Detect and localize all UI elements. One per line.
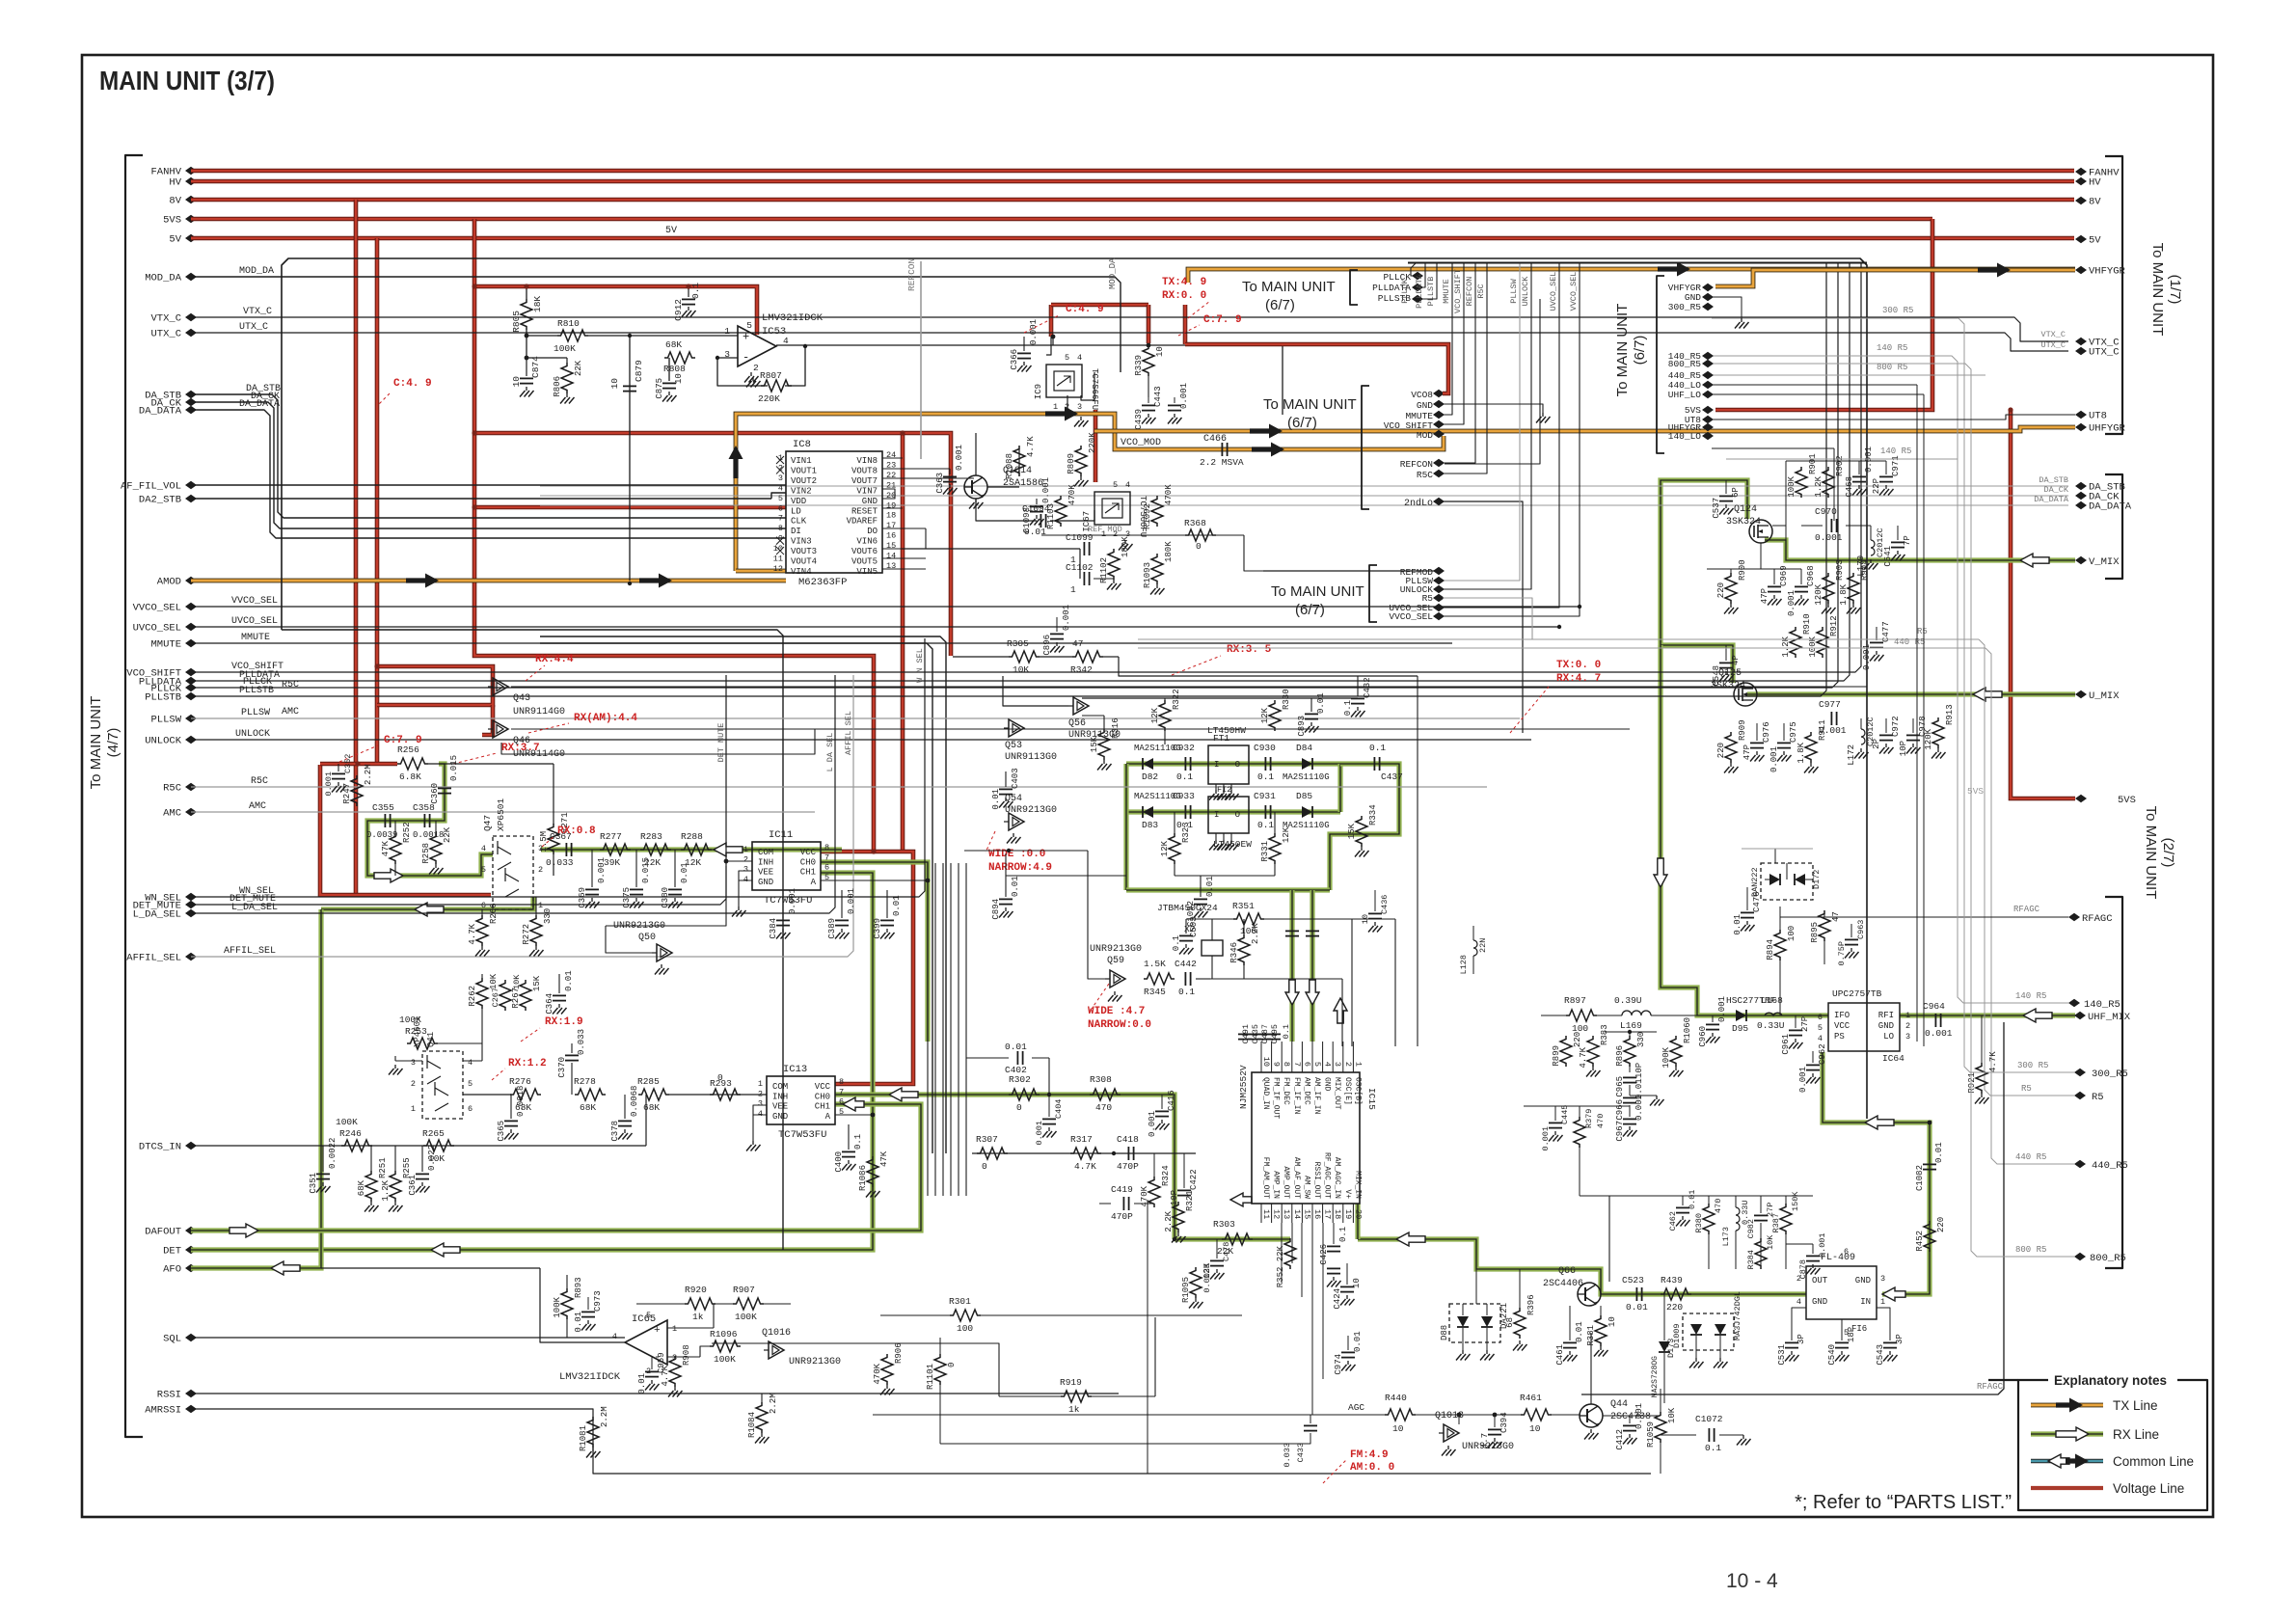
- svg-text:VIN8: VIN8: [856, 456, 878, 466]
- legend Common line: [2031, 1459, 2103, 1464]
- svg-text:C399: C399: [873, 918, 882, 939]
- svg-text:5: 5: [646, 1311, 651, 1320]
- resistor R276: [510, 1089, 541, 1100]
- TX arrow AMOD left: [406, 574, 439, 588]
- svg-text:0.1: 0.1: [1338, 1227, 1348, 1242]
- resistor R266: [476, 915, 488, 946]
- svg-text:140_R5: 140_R5: [2084, 999, 2120, 1011]
- svg-text:220: 220: [1716, 743, 1726, 758]
- right port FANHV: [2075, 168, 2087, 176]
- capacitor C351: [322, 1146, 324, 1172]
- resistor R896: [1624, 1036, 1635, 1067]
- svg-text:0.01: 0.01: [991, 789, 1001, 810]
- svg-text:4.7K: 4.7K: [468, 923, 477, 944]
- svg-text:1: 1: [1905, 1011, 1910, 1020]
- capacitor C402: [1016, 1051, 1018, 1065]
- svg-text:0.1: 0.1: [1257, 820, 1274, 830]
- svg-text:UTX_C: UTX_C: [239, 322, 268, 333]
- svg-text:UHF_LO: UHF_LO: [1668, 390, 1702, 400]
- svg-text:R387: R387: [1771, 1213, 1781, 1232]
- TX arrow y429: [1045, 407, 1078, 421]
- svg-text:C1098: C1098: [1022, 507, 1032, 533]
- svg-text:XP6501: XP6501: [496, 798, 506, 831]
- svg-text:C462: C462: [1668, 1211, 1678, 1231]
- RX arrow DET: [431, 1243, 460, 1257]
- svg-text:C416: C416: [1167, 1090, 1176, 1111]
- svg-text:PLLSW: PLLSW: [1509, 278, 1519, 303]
- svg-text:L169: L169: [1620, 1020, 1642, 1031]
- svg-text:2.2M: 2.2M: [600, 1406, 609, 1427]
- voltage IC9 area x1090: [1049, 305, 1054, 337]
- resistor R317: [1070, 1148, 1101, 1159]
- voltage Q46 stub: [482, 705, 493, 735]
- svg-text:1.5K: 1.5K: [1144, 959, 1166, 969]
- svg-text:PLLSW: PLLSW: [150, 715, 181, 726]
- svg-text:470P: 470P: [1117, 1161, 1139, 1172]
- svg-text:2SC4406: 2SC4406: [1543, 1279, 1583, 1289]
- svg-text:C:4. 9: C:4. 9: [393, 378, 432, 390]
- voltage line 5VS bus: [191, 217, 1932, 222]
- resistor R1103: [1055, 496, 1067, 527]
- svg-text:68K: 68K: [357, 1179, 366, 1196]
- svg-text:R302: R302: [1009, 1074, 1031, 1085]
- wire DA_STB: [191, 394, 786, 518]
- resistor R921: [1976, 1063, 1987, 1094]
- resistor R1102: [1108, 549, 1120, 580]
- svg-text:VIN4: VIN4: [791, 567, 812, 577]
- svg-text:R1084: R1084: [747, 1412, 757, 1438]
- capacitor C959: [651, 1356, 653, 1369]
- svg-text:R903: R903: [1835, 559, 1845, 581]
- svg-text:5: 5: [1065, 353, 1069, 363]
- wire REF_MOD: [1041, 534, 1244, 536]
- wire 800R5 long: [1712, 364, 2074, 1257]
- svg-text:R908: R908: [682, 1344, 691, 1366]
- voltage branch y297 to IC53: [474, 286, 757, 335]
- svg-text:To MAIN UNIT: To MAIN UNIT: [1242, 279, 1336, 295]
- svg-text:AMP_OUT: AMP_OUT: [1282, 1166, 1290, 1199]
- capacitor C969: [1773, 569, 1775, 584]
- right bracket (DA group): [2105, 474, 2122, 579]
- svg-text:RX:1.2: RX:1.2: [508, 1058, 547, 1069]
- wire DTCS_IN: [191, 1145, 646, 1147]
- capacitor C931: [1264, 805, 1266, 819]
- svg-text:180K: 180K: [1164, 541, 1174, 562]
- svg-text:Explanatory notes: Explanatory notes: [2054, 1373, 2167, 1388]
- svg-text:13: 13: [1282, 1209, 1291, 1219]
- resistor R379: [1574, 1117, 1585, 1148]
- TX arrow up VOUT4: [729, 446, 743, 478]
- resistor R307: [977, 1148, 1008, 1159]
- svg-text:IFO: IFO: [1834, 1011, 1850, 1020]
- voltage 5VS trunk x492: [474, 219, 874, 852]
- svg-text:300 R5: 300 R5: [2017, 1061, 2048, 1070]
- svg-text:CLK: CLK: [791, 517, 807, 527]
- svg-text:VOUT5: VOUT5: [851, 557, 878, 567]
- capacitor C462: [1682, 1196, 1684, 1205]
- svg-text:4.7K: 4.7K: [1074, 1161, 1096, 1172]
- svg-text:5V: 5V: [2089, 235, 2101, 247]
- transistor Q56: [1073, 697, 1089, 715]
- svg-text:3P: 3P: [1895, 1334, 1904, 1344]
- svg-text:Common Line: Common Line: [2113, 1454, 2194, 1469]
- svg-text:C355: C355: [372, 802, 394, 813]
- svg-text:0.01: 0.01: [574, 1312, 583, 1333]
- RX line filter left: [1123, 764, 1128, 890]
- svg-text:IN: IN: [1860, 1297, 1871, 1307]
- capacitor C378: [624, 1095, 626, 1119]
- right port VHFYGR: [2075, 266, 2087, 274]
- svg-text:TX:0. 0: TX:0. 0: [1556, 660, 1601, 671]
- svg-text:1: 1: [724, 326, 730, 337]
- svg-text:22K: 22K: [574, 360, 583, 376]
- svg-text:100: 100: [1787, 926, 1796, 941]
- right port UTX_C: [2075, 347, 2087, 355]
- svg-text:R285: R285: [637, 1076, 660, 1087]
- svg-text:Q56: Q56: [1068, 718, 1086, 729]
- capacitor C523: [1635, 1287, 1637, 1301]
- ground IC53 pin2: [750, 372, 752, 376]
- RX line Q47 low: [321, 897, 533, 909]
- svg-text:L170: L170: [1856, 555, 1866, 577]
- svg-text:5: 5: [1818, 1023, 1823, 1033]
- IC IC15 NJM2552V: [1252, 1072, 1360, 1204]
- svg-text:15K: 15K: [532, 975, 542, 991]
- wire REFCON: [920, 261, 922, 459]
- svg-text:RSSI_OUT: RSSI_OUT: [1312, 1162, 1321, 1200]
- resistor R277: [600, 844, 631, 855]
- svg-text:1: 1: [1070, 584, 1076, 595]
- svg-text:MOD_DA: MOD_DA: [1108, 257, 1118, 289]
- wire riser PLLCK: [1411, 262, 1421, 276]
- svg-text:V+: V+: [1343, 1189, 1352, 1199]
- svg-text:12K: 12K: [1160, 840, 1170, 856]
- right port 140_R5: [2068, 999, 2080, 1007]
- svg-text:LD: LD: [791, 506, 801, 516]
- RX line filter bottom: [1126, 887, 1330, 892]
- capacitor C1092: [1200, 876, 1202, 897]
- svg-text:D83: D83: [1142, 820, 1158, 830]
- svg-text:R256: R256: [397, 744, 419, 755]
- wire AMRSSI: [191, 1409, 1651, 1474]
- capacitor C978: [1912, 718, 1914, 733]
- svg-text:GND: GND: [1417, 400, 1433, 411]
- capacitor C982: [1760, 1196, 1762, 1213]
- right port 800_R5: [2074, 1253, 2086, 1260]
- resistor R262: [476, 978, 488, 1009]
- capacitor C367: [565, 843, 567, 856]
- svg-text:VEE: VEE: [758, 868, 773, 878]
- svg-text:2P: 2P: [1872, 739, 1881, 749]
- resistor R1095: [1190, 1267, 1202, 1298]
- svg-text:12K: 12K: [1282, 826, 1291, 843]
- svg-text:R301: R301: [949, 1296, 971, 1307]
- svg-text:NARROW:4.9: NARROW:4.9: [988, 862, 1052, 874]
- resistor R452: [1924, 1221, 1935, 1252]
- svg-text:OUT: OUT: [1812, 1276, 1828, 1286]
- svg-text:1: 1: [758, 1079, 763, 1089]
- transistor Q50: [657, 944, 672, 961]
- svg-text:5: 5: [1312, 1062, 1322, 1067]
- svg-text:COM: COM: [758, 848, 773, 857]
- wire DA right bus3: [540, 504, 1992, 506]
- svg-text:1k: 1k: [692, 1312, 704, 1322]
- right port U_MIX: [2075, 690, 2087, 698]
- svg-text:2.2 MSVA: 2.2 MSVA: [1200, 457, 1244, 468]
- svg-text:47P: 47P: [1742, 744, 1752, 760]
- svg-text:7: 7: [1292, 1062, 1302, 1067]
- svg-text:0.0018: 0.0018: [516, 1086, 526, 1117]
- voltage IC11 VCC: [821, 852, 913, 1084]
- svg-text:AM_IF_IN: AM_IF_IN: [1312, 1077, 1321, 1115]
- transistor Q1013: [1444, 1424, 1459, 1442]
- svg-text:XP4601: XP4601: [413, 1016, 422, 1047]
- svg-text:PLLCK: PLLCK: [1400, 278, 1410, 303]
- svg-text:3SK324: 3SK324: [1711, 681, 1745, 691]
- svg-text:AFFIL_SEL: AFFIL_SEL: [224, 946, 276, 957]
- right port 5V: [2075, 235, 2087, 243]
- svg-text:10: 10: [1607, 1316, 1617, 1327]
- svg-text:REF MOD: REF MOD: [1088, 525, 1122, 534]
- resistor R387: [1780, 1204, 1792, 1234]
- svg-text:800_R5: 800_R5: [2090, 1253, 2126, 1264]
- RX line IC11 loop2: [191, 873, 873, 1250]
- svg-text:0.01: 0.01: [680, 862, 689, 883]
- RX line Q47 green: [367, 764, 493, 876]
- wire Q41 to R276: [463, 1094, 511, 1096]
- svg-text:0.001: 0.001: [1925, 1028, 1953, 1039]
- svg-text:R1101: R1101: [926, 1364, 935, 1390]
- svg-text:VCO_MOD: VCO_MOD: [1121, 438, 1161, 448]
- IC8 pin x marks: [776, 456, 784, 464]
- svg-text:R5C: R5C: [282, 680, 299, 690]
- resistor R381: [1595, 1315, 1607, 1346]
- svg-text:0.0039: 0.0039: [366, 830, 397, 840]
- svg-text:R1086: R1086: [858, 1165, 868, 1191]
- svg-text:16: 16: [886, 531, 896, 541]
- transistor Q124: [1749, 520, 1772, 543]
- wire riser R5C: [1443, 262, 1487, 474]
- svg-text:R900: R900: [1738, 559, 1747, 581]
- wire RFAGC collector: [1581, 1022, 2004, 1394]
- svg-text:C1072: C1072: [1695, 1414, 1723, 1424]
- svg-text:TX Line: TX Line: [2113, 1398, 2158, 1413]
- svg-text:20: 20: [1353, 1209, 1363, 1219]
- svg-text:0.001: 0.001: [955, 445, 964, 471]
- svg-text:L128: L128: [1459, 955, 1469, 974]
- wire riser VCO_SHIFT: [1443, 262, 1464, 424]
- svg-text:100K: 100K: [336, 1117, 358, 1127]
- svg-text:C366: C366: [1010, 349, 1019, 370]
- capacitor C893: [1310, 698, 1312, 712]
- svg-text:R1093: R1093: [1143, 562, 1152, 588]
- svg-text:68K: 68K: [643, 1102, 660, 1113]
- svg-text:UNR9114G0: UNR9114G0: [513, 707, 565, 717]
- svg-text:10P: 10P: [1899, 741, 1908, 756]
- svg-text:0.1: 0.1: [1282, 1024, 1291, 1039]
- svg-text:FM:4.9: FM:4.9: [1350, 1449, 1389, 1461]
- capacitor C478: [1216, 1239, 1218, 1259]
- wire UNLOCK: [191, 739, 1531, 741]
- svg-text:VCO_SHIFT: VCO_SHIFT: [1453, 269, 1463, 313]
- wire IC53 out: [776, 344, 1283, 346]
- wire R920 net: [636, 1303, 685, 1305]
- svg-text:To MAIN UNIT: To MAIN UNIT: [1271, 583, 1364, 600]
- svg-text:330: 330: [543, 908, 553, 924]
- resistor R904: [1848, 573, 1859, 604]
- diode D82: [1143, 758, 1153, 770]
- svg-text:220: 220: [1716, 582, 1726, 598]
- svg-text:Voltage Line: Voltage Line: [2113, 1481, 2184, 1496]
- svg-text:C364: C364: [545, 993, 554, 1015]
- svg-text:0.001: 0.001: [1798, 1067, 1808, 1093]
- wire riser UNLOCK: [1443, 262, 1531, 589]
- svg-text:0.001: 0.001: [1818, 1232, 1827, 1258]
- svg-text:R452: R452: [1915, 1231, 1925, 1252]
- svg-text:12: 12: [1272, 1209, 1282, 1219]
- wire DTCS joins: [370, 1146, 372, 1171]
- svg-text:C384: C384: [769, 918, 778, 939]
- wire UT8: [1712, 415, 2075, 420]
- svg-text:7: 7: [839, 1087, 844, 1096]
- wire filter top: [1082, 697, 1358, 699]
- svg-text:RF_AGC_OUT: RF_AGC_OUT: [1323, 1152, 1332, 1199]
- capacitor C896: [1056, 617, 1058, 632]
- resistor R258: [430, 833, 442, 864]
- svg-text:4: 4: [1796, 1297, 1801, 1307]
- capacitor C418: [1127, 1147, 1129, 1160]
- svg-text:4: 4: [1125, 480, 1130, 490]
- svg-text:VOUT7: VOUT7: [851, 476, 878, 486]
- wire C960 net: [1696, 1015, 1698, 1016]
- svg-text:AM_AF_OUT: AM_AF_OUT: [1292, 1157, 1301, 1199]
- svg-text:3: 3: [743, 865, 748, 875]
- svg-text:470K: 470K: [1067, 484, 1077, 505]
- voltage line HV bus: [191, 179, 2074, 184]
- inductor L172: [1860, 718, 1862, 729]
- wire AMC: [191, 811, 299, 813]
- capacitor C355: [384, 814, 386, 827]
- svg-text:C352: C352: [343, 754, 353, 773]
- svg-text:C982: C982: [1746, 1219, 1756, 1238]
- svg-text:C439: C439: [1134, 409, 1144, 430]
- capacitor C930: [1264, 757, 1266, 771]
- svg-text:R907: R907: [733, 1285, 755, 1295]
- wire RSSI: [191, 1393, 1119, 1394]
- svg-text:INH: INH: [758, 857, 773, 867]
- right port VTX_C: [2075, 338, 2087, 345]
- svg-text:3: 3: [724, 349, 730, 360]
- svg-text:GND: GND: [1855, 1276, 1871, 1286]
- wire DA right hooks: [1979, 485, 2068, 487]
- svg-text:C400: C400: [834, 1151, 844, 1173]
- right port DA_DATA: [2075, 501, 2087, 509]
- transistor Q1016: [769, 1341, 784, 1359]
- svg-text:DA_CK: DA_CK: [2043, 485, 2068, 495]
- RX arrow IC13 CH1: [843, 1097, 864, 1111]
- svg-text:6P: 6P: [1731, 487, 1741, 498]
- wire IC9 pins: [1046, 337, 1051, 355]
- svg-text:7: 7: [824, 853, 829, 862]
- capacitor C537: [1725, 480, 1727, 494]
- resistor R321: [1173, 1202, 1184, 1232]
- svg-text:15: 15: [1302, 1209, 1311, 1219]
- svg-text:R899: R899: [1552, 1045, 1561, 1067]
- svg-text:C541: C541: [1883, 546, 1893, 567]
- voltage 5V drop x391: [375, 238, 380, 764]
- svg-text:6: 6: [1302, 1062, 1311, 1067]
- wire center drop x1470: [1417, 676, 1418, 1046]
- resistor R920: [685, 1298, 716, 1310]
- svg-text:16: 16: [1312, 1209, 1322, 1219]
- inductor L169: [1622, 1011, 1651, 1015]
- svg-text:15K: 15K: [1347, 823, 1357, 839]
- resistor R808: [664, 352, 695, 364]
- svg-text:10: 10: [1529, 1423, 1541, 1434]
- wire IC53 fb: [785, 346, 805, 386]
- resistor R303: [1222, 1233, 1253, 1245]
- svg-text:COM: COM: [772, 1082, 788, 1092]
- capacitor C1082: [1923, 1163, 1936, 1165]
- svg-text:C879: C879: [634, 360, 644, 382]
- svg-text:R307: R307: [976, 1134, 998, 1145]
- wire C1099 row: [902, 548, 1080, 550]
- svg-text:VOUT6: VOUT6: [851, 547, 878, 556]
- svg-text:VHFYGR: VHFYGR: [2089, 266, 2126, 278]
- svg-text:440_R5: 440_R5: [2092, 1160, 2128, 1172]
- svg-text:RESET: RESET: [851, 506, 878, 516]
- wire WN_SEL: [191, 638, 925, 897]
- svg-text:RX:4. 7: RX:4. 7: [1556, 673, 1601, 685]
- svg-text:C930: C930: [1254, 743, 1276, 753]
- voltage branch VDD IC8: [474, 505, 786, 510]
- wire NJM pin drops: [1281, 1223, 1283, 1283]
- svg-text:M62363FP: M62363FP: [798, 577, 847, 588]
- svg-text:10: 10: [609, 378, 620, 390]
- svg-text:12K: 12K: [1202, 1262, 1212, 1279]
- svg-text:R368: R368: [1184, 518, 1206, 528]
- legend TX line: [2031, 1403, 2103, 1408]
- capacitor C875: [662, 382, 676, 384]
- svg-text:DA_DATA: DA_DATA: [139, 406, 182, 418]
- svg-text:C540: C540: [1827, 1344, 1837, 1366]
- svg-text:0.01: 0.01: [1005, 1042, 1027, 1052]
- svg-text:INH: INH: [772, 1092, 788, 1101]
- svg-text:Q50: Q50: [638, 933, 656, 943]
- svg-text:VTX_C: VTX_C: [2040, 330, 2066, 339]
- ground Q41: [394, 1065, 396, 1069]
- wire top bus: [282, 258, 1867, 1119]
- TX line VOUT4 entry: [736, 569, 786, 574]
- resistor R351: [1233, 913, 1264, 925]
- svg-text:VVCO_SEL: VVCO_SEL: [133, 603, 181, 614]
- capacitor C548: [1725, 645, 1727, 661]
- svg-text:D85: D85: [1296, 791, 1312, 801]
- svg-text:10: 10: [674, 373, 684, 384]
- capacitor C932: [1184, 757, 1186, 771]
- svg-text:0.001: 0.001: [1815, 532, 1843, 543]
- resistor R383: [1587, 1036, 1599, 1067]
- resistor R308: [1090, 1089, 1121, 1100]
- svg-text:4: 4: [1323, 1062, 1333, 1067]
- svg-text:O: O: [1235, 810, 1240, 820]
- svg-text:C967: C967: [1615, 1121, 1625, 1142]
- svg-text:DI: DI: [791, 527, 801, 536]
- svg-text:R339: R339: [1134, 355, 1144, 376]
- wire AMC riser: [501, 729, 815, 754]
- svg-text:C365: C365: [497, 1121, 506, 1142]
- svg-text:C375: C375: [622, 887, 632, 908]
